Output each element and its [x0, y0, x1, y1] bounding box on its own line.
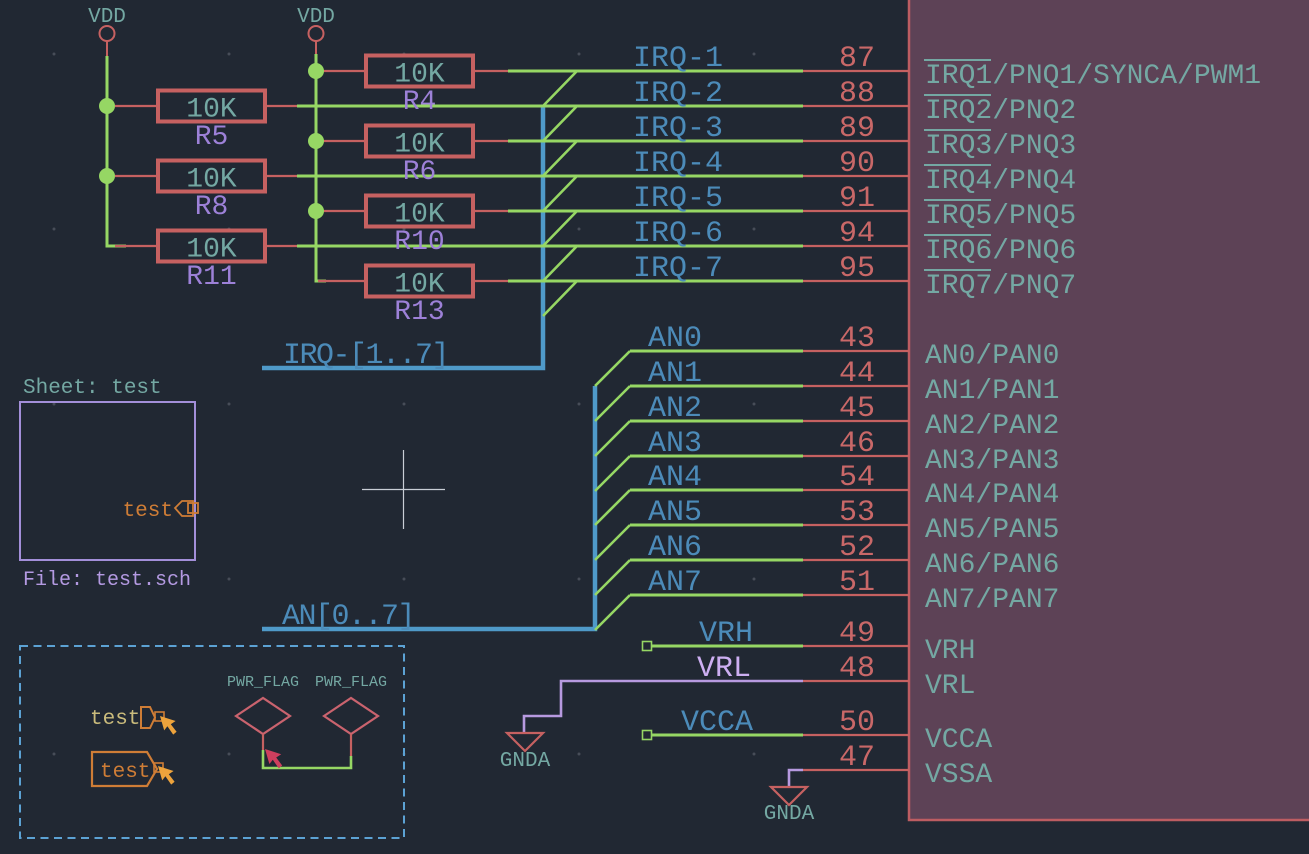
svg-text:10K: 10K	[394, 270, 445, 301]
svg-text:51: 51	[839, 566, 875, 600]
svg-text:87: 87	[839, 42, 875, 76]
resistor R4 10K	[318, 56, 508, 119]
hierarchical label "test" (tag outline)	[92, 752, 163, 786]
resistor R11 10K	[115, 231, 297, 294]
net label VRL	[697, 652, 751, 686]
resistor R8 10K	[115, 161, 297, 224]
svg-text:IRQ-4: IRQ-4	[633, 147, 723, 181]
svg-text:test: test	[100, 761, 150, 784]
wire VDD column 1	[107, 56, 126, 246]
resistor R5 10K	[115, 91, 297, 154]
net label IRQ-1	[633, 42, 723, 76]
svg-text:53: 53	[839, 496, 875, 530]
wire net IRQ6 row	[297, 245, 803, 248]
svg-text:Sheet: test: Sheet: test	[23, 377, 162, 400]
junction (107,106)	[99, 98, 115, 114]
bus entry AN row y=351	[595, 351, 630, 386]
net label AN0	[648, 322, 702, 356]
sheet file label	[23, 569, 191, 592]
svg-text:R13: R13	[394, 297, 444, 328]
wire VRL (highlighted)	[524, 681, 803, 732]
pin 45 (AN2/PAN2)	[803, 392, 1059, 442]
wire VDD column 2	[316, 54, 326, 281]
power flag PWR_FLAG #2	[315, 674, 387, 756]
svg-text:91: 91	[839, 182, 875, 216]
svg-text:44: 44	[839, 357, 875, 391]
bus entry IRQ row y=281	[543, 281, 577, 316]
wire net AN7 row	[630, 594, 803, 597]
wire net AN5 row	[630, 524, 803, 527]
svg-text:AN2/PAN2: AN2/PAN2	[925, 411, 1059, 442]
svg-text:50: 50	[839, 706, 875, 740]
wire net AN1 row	[630, 385, 803, 388]
bus entry IRQ row y=71	[543, 71, 577, 106]
svg-text:VCCA: VCCA	[681, 706, 753, 740]
bus entry IRQ row y=246	[543, 246, 577, 281]
svg-text:AN4: AN4	[648, 461, 702, 495]
wire net IRQ7 row	[508, 280, 803, 283]
net label VRH	[699, 617, 753, 651]
pin 87 (IRQ1/PNQ1/SYNCA/PWM1)	[803, 42, 1261, 92]
svg-text:test: test	[90, 708, 140, 731]
pin 49 (VRH)	[803, 617, 975, 667]
svg-text:47: 47	[839, 741, 875, 775]
pin 53 (AN5/PAN5)	[803, 496, 1059, 546]
pin 52 (AN6/PAN6)	[803, 531, 1059, 581]
pin 47 (VSSA)	[803, 741, 992, 791]
svg-text:VSSA: VSSA	[925, 760, 992, 791]
cursor arrow (crimson) on PWR_FLAG wire	[265, 749, 282, 768]
wire net IRQ3 row	[508, 140, 803, 143]
svg-text:AN1: AN1	[648, 357, 702, 391]
bus entry AN row y=525	[595, 525, 630, 560]
wire net AN3 row	[630, 455, 803, 458]
svg-text:AN2: AN2	[648, 392, 702, 426]
svg-text:AN3/PAN3: AN3/PAN3	[925, 446, 1059, 477]
net label IRQ-5	[633, 182, 723, 216]
IC U1 body	[909, 0, 1309, 820]
resistor R10 10K	[318, 196, 508, 259]
svg-text:R10: R10	[394, 227, 444, 258]
svg-text:PWR_FLAG: PWR_FLAG	[315, 674, 387, 691]
svg-text:GNDA: GNDA	[500, 750, 551, 773]
svg-text:AN[0..7]: AN[0..7]	[282, 600, 414, 634]
bus entry IRQ row y=106	[543, 106, 577, 141]
svg-text:GNDA: GNDA	[764, 803, 815, 826]
svg-text:VRL: VRL	[697, 652, 751, 686]
svg-text:IRQ6/PNQ6: IRQ6/PNQ6	[925, 236, 1076, 267]
pin 94 (IRQ6/PNQ6)	[803, 217, 1076, 267]
bus entry IRQ row y=176	[543, 176, 577, 211]
wire net AN4 row	[630, 489, 803, 492]
power symbol VDD #1	[88, 6, 126, 56]
net label VCCA	[681, 706, 753, 740]
net label IRQ-6	[633, 217, 723, 251]
svg-text:AN7/PAN7: AN7/PAN7	[925, 585, 1059, 616]
svg-text:45: 45	[839, 392, 875, 426]
hierarchical label "test" (ghost)	[90, 707, 164, 731]
pin 43 (AN0/PAN0)	[803, 322, 1059, 372]
svg-text:AN0/PAN0: AN0/PAN0	[925, 341, 1059, 372]
ground GNDA #1	[500, 733, 551, 773]
svg-text:VRL: VRL	[925, 671, 975, 702]
svg-text:File: test.sch: File: test.sch	[23, 569, 191, 592]
net label AN4	[648, 461, 702, 495]
svg-text:IRQ-[1..7]: IRQ-[1..7]	[283, 339, 448, 373]
svg-text:IRQ-6: IRQ-6	[633, 217, 723, 251]
svg-text:54: 54	[839, 461, 875, 495]
svg-text:PWR_FLAG: PWR_FLAG	[227, 674, 299, 691]
bus entry IRQ row y=211	[543, 211, 577, 246]
svg-text:R6: R6	[403, 157, 437, 188]
net label AN7	[648, 566, 702, 600]
svg-text:IRQ3/PNQ3: IRQ3/PNQ3	[925, 131, 1076, 162]
svg-text:AN3: AN3	[648, 427, 702, 461]
pin 44 (AN1/PAN1)	[803, 357, 1059, 407]
svg-text:46: 46	[839, 427, 875, 461]
crosshair cursor	[362, 450, 445, 529]
svg-text:AN7: AN7	[648, 566, 702, 600]
wire net IRQ5 row	[508, 210, 803, 213]
svg-text:AN4/PAN4: AN4/PAN4	[925, 480, 1059, 511]
junction (316,141)	[308, 133, 324, 149]
junction (316,211)	[308, 203, 324, 219]
bus AN[0..7]	[262, 386, 595, 629]
wire net AN2 row	[630, 420, 803, 423]
cursor arrow (yellow) #2	[158, 766, 175, 785]
svg-text:VRH: VRH	[699, 617, 753, 651]
net label AN5	[648, 496, 702, 530]
svg-text:88: 88	[839, 77, 875, 111]
pin 89 (IRQ3/PNQ3)	[803, 112, 1076, 162]
svg-text:94: 94	[839, 217, 875, 251]
svg-text:95: 95	[839, 252, 875, 286]
bus entry AN row y=456	[595, 456, 630, 491]
svg-text:IRQ5/PNQ5: IRQ5/PNQ5	[925, 201, 1076, 232]
wire net AN6 row	[630, 559, 803, 562]
svg-text:AN0: AN0	[648, 322, 702, 356]
net label IRQ-3	[633, 112, 723, 146]
wire net IRQ4 row	[297, 175, 803, 178]
sheet name label	[23, 377, 162, 400]
svg-text:AN6/PAN6: AN6/PAN6	[925, 550, 1059, 581]
svg-text:IRQ-2: IRQ-2	[633, 77, 723, 111]
sheet pin "test"	[123, 500, 198, 523]
svg-text:R8: R8	[195, 192, 229, 223]
svg-text:VCCA: VCCA	[925, 725, 992, 756]
svg-text:89: 89	[839, 112, 875, 146]
svg-text:IRQ2/PNQ2: IRQ2/PNQ2	[925, 96, 1076, 127]
sheet symbol "test"	[20, 402, 195, 560]
net label IRQ-4	[633, 147, 723, 181]
svg-text:AN5/PAN5: AN5/PAN5	[925, 515, 1059, 546]
bus IRQ-[1..7]	[262, 106, 543, 368]
svg-text:AN5: AN5	[648, 496, 702, 530]
pin 51 (AN7/PAN7)	[803, 566, 1059, 616]
bus entry AN row y=560	[595, 560, 630, 595]
wire net AN0 row	[630, 350, 803, 353]
svg-text:VRH: VRH	[925, 636, 975, 667]
resistor R13 10K	[318, 266, 508, 329]
bus label AN[0..7]	[282, 600, 414, 634]
svg-text:49: 49	[839, 617, 875, 651]
junction (316,71)	[308, 63, 324, 79]
svg-text:test: test	[123, 500, 173, 523]
svg-text:10K: 10K	[394, 130, 445, 161]
svg-text:10K: 10K	[186, 235, 237, 266]
net label AN3	[648, 427, 702, 461]
pin 46 (AN3/PAN3)	[803, 427, 1059, 477]
cursor arrow (yellow) #1	[160, 716, 177, 735]
pin 50 (VCCA)	[803, 706, 992, 756]
resistor R6 10K	[318, 126, 508, 189]
svg-text:IRQ1/PNQ1/SYNCA/PWM1: IRQ1/PNQ1/SYNCA/PWM1	[925, 61, 1261, 92]
pin 88 (IRQ2/PNQ2)	[803, 77, 1076, 127]
wire net IRQ1 row	[508, 70, 803, 73]
svg-text:IRQ-5: IRQ-5	[633, 182, 723, 216]
net label AN2	[648, 392, 702, 426]
bus entry IRQ row y=141	[543, 141, 577, 176]
svg-text:IRQ-3: IRQ-3	[633, 112, 723, 146]
svg-text:52: 52	[839, 531, 875, 565]
net label IRQ-2	[633, 77, 723, 111]
net label AN1	[648, 357, 702, 391]
svg-text:10K: 10K	[394, 200, 445, 231]
wire net IRQ2 row	[297, 105, 803, 108]
svg-text:IRQ4/PNQ4: IRQ4/PNQ4	[925, 166, 1076, 197]
svg-text:10K: 10K	[394, 60, 445, 91]
svg-text:R11: R11	[186, 262, 236, 293]
svg-text:10K: 10K	[186, 165, 237, 196]
svg-text:IRQ-1: IRQ-1	[633, 42, 723, 76]
ground GNDA #2	[764, 787, 815, 826]
svg-text:AN6: AN6	[648, 531, 702, 565]
net label AN6	[648, 531, 702, 565]
pin 54 (AN4/PAN4)	[803, 461, 1059, 511]
selection dashed box	[20, 646, 404, 838]
bus label IRQ-[1..7]	[283, 339, 448, 373]
bus entry AN row y=386	[595, 386, 630, 421]
svg-text:43: 43	[839, 322, 875, 356]
junction (107,176)	[99, 168, 115, 184]
bus entry AN row y=421	[595, 421, 630, 456]
svg-text:IRQ7/PNQ7: IRQ7/PNQ7	[925, 271, 1076, 302]
svg-text:90: 90	[839, 147, 875, 181]
svg-text:48: 48	[839, 652, 875, 686]
svg-text:AN1/PAN1: AN1/PAN1	[925, 376, 1059, 407]
svg-text:10K: 10K	[186, 95, 237, 126]
svg-text:R4: R4	[403, 87, 437, 118]
power flag PWR_FLAG #1	[227, 674, 299, 750]
wire VRH with open end	[643, 642, 804, 651]
bus entry AN row y=595	[595, 595, 630, 630]
wire VCCA with open end	[643, 731, 804, 740]
wire VSSA to GNDA	[789, 770, 803, 786]
wire between PWR_FLAGs	[263, 750, 351, 768]
pin 95 (IRQ7/PNQ7)	[803, 252, 1076, 302]
power symbol VDD #2	[297, 6, 335, 54]
svg-text:R5: R5	[195, 122, 229, 153]
bus entry AN row y=490	[595, 490, 630, 525]
net label IRQ-7	[633, 252, 723, 286]
svg-text:IRQ-7: IRQ-7	[633, 252, 723, 286]
pin 91 (IRQ5/PNQ5)	[803, 182, 1076, 232]
pin 48 (VRL)	[803, 652, 975, 702]
pin 90 (IRQ4/PNQ4)	[803, 147, 1076, 197]
